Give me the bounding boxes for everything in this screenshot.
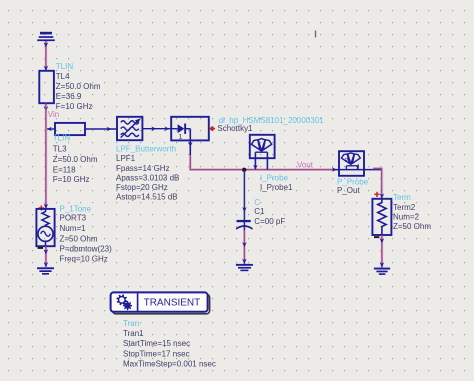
- diode Schottky1 box: [171, 117, 209, 141]
- wire junction to TL3: [47, 128, 55, 130]
- svg-text:TLIN: TLIN: [56, 62, 74, 71]
- wire halos: [46, 41, 382, 268]
- svg-text:Z=50 Ohm: Z=50 Ohm: [393, 222, 431, 231]
- diode pin2 stub below box: [189, 140, 191, 155]
- svg-text:Num=1: Num=1: [60, 224, 87, 233]
- svg-text:Term: Term: [393, 193, 411, 202]
- pin arrow PORT3 ground: [44, 262, 49, 267]
- pin arrow C1 ground: [242, 259, 247, 264]
- svg-text:Vout: Vout: [297, 160, 314, 169]
- pin arrow capacitor top: [242, 207, 247, 212]
- svg-text:P_1Tone: P_1Tone: [60, 204, 92, 213]
- resistor-style TLIN TL4 box: [39, 71, 54, 103]
- TL4 labels: [56, 62, 101, 111]
- power probe P_Out: [339, 151, 364, 176]
- pin arrow into TL4 top: [44, 66, 49, 71]
- plus mark PORT3: [39, 205, 44, 210]
- pin arrow PORT3 bottom: [44, 249, 49, 254]
- svg-text:Z=50.0 Ohm: Z=50.0 Ohm: [56, 82, 101, 91]
- pin arrow LPF pin2: [151, 126, 156, 131]
- pin arrow TL3 pin2: [107, 127, 112, 132]
- svg-text:Fpass=14 GHz: Fpass=14 GHz: [116, 164, 170, 173]
- capacitor C1: [236, 220, 252, 229]
- minus mark PORT3: [38, 247, 43, 249]
- ground (PORT3): [37, 267, 54, 274]
- svg-text:P_Out: P_Out: [337, 186, 360, 195]
- svg-text:TL3: TL3: [53, 145, 67, 154]
- filter LPF1 box: [117, 117, 142, 140]
- resistor zigzag Term2: [378, 199, 386, 235]
- PORT3 labels: [60, 204, 113, 263]
- current probe I_Probe1: [250, 135, 275, 170]
- pin arrow Term2 bottom: [380, 238, 385, 243]
- gear icon: [116, 294, 127, 305]
- pin arrow PORT3 top: [44, 204, 49, 209]
- svg-text:Vin: Vin: [48, 110, 59, 119]
- svg-text:F=10 GHz: F=10 GHz: [56, 102, 93, 111]
- TLIN TL3 box: [55, 123, 85, 135]
- pin arrow C1 bottom: [242, 242, 247, 247]
- svg-text:Schottky1: Schottky1: [217, 124, 253, 133]
- wire Term2 to ground: [381, 235, 383, 268]
- pin arrow TL4 bottom: [44, 106, 49, 111]
- svg-text:P_Probe: P_Probe: [337, 177, 369, 186]
- wire TL3 to LPF: [85, 128, 117, 130]
- stray tick mark top right: [315, 31, 316, 38]
- transient labels: [123, 319, 216, 368]
- svg-text:StopTime=17 nsec: StopTime=17 nsec: [123, 349, 190, 358]
- svg-text:Fstop=20 GHz: Fstop=20 GHz: [116, 183, 168, 192]
- resistor zigzag PORT3: [42, 209, 49, 226]
- svg-text:E=36.9: E=36.9: [56, 92, 82, 101]
- svg-text:PORT3: PORT3: [60, 213, 87, 222]
- ground (top, flipped): [37, 32, 55, 41]
- svg-text:Z=50 Ohm: Z=50 Ohm: [60, 234, 98, 243]
- wire capacitor branch: [243, 170, 245, 230]
- svg-text:Apass=3.0103 dB: Apass=3.0103 dB: [116, 173, 179, 182]
- svg-text:LPF1: LPF1: [116, 154, 136, 163]
- wire ground to TL4: [45, 41, 47, 71]
- svg-text:TLIN: TLIN: [53, 134, 71, 143]
- wire PORT3 to ground: [45, 246, 47, 267]
- ground (Term2): [374, 268, 390, 275]
- svg-text:TL4: TL4: [56, 72, 70, 81]
- svg-text:TRANSIENT: TRANSIENT: [144, 298, 201, 309]
- svg-text:Z=50.0 Ohm: Z=50.0 Ohm: [53, 155, 98, 164]
- sine source circle PORT3: [38, 226, 53, 241]
- wire TL4 to PORT3 (vertical spine): [45, 103, 47, 209]
- terminator Term2: [372, 199, 391, 235]
- svg-text:Tran: Tran: [123, 319, 139, 328]
- diode symbol: [171, 124, 190, 141]
- wire Vout net navy segment through P_Probe: [333, 169, 382, 171]
- svg-text:I_Probe: I_Probe: [260, 174, 289, 183]
- unconnected pin red diamond: [209, 126, 215, 131]
- svg-text:C=00 pF: C=00 pF: [254, 217, 285, 226]
- pin arrow diode pin2: [188, 142, 193, 147]
- svg-text:P: P: [345, 158, 349, 164]
- node junction capacitor tap: [242, 168, 246, 172]
- svg-text:Tran1: Tran1: [123, 329, 144, 338]
- svg-text:Num=2: Num=2: [393, 213, 420, 222]
- pin arrow diode pin1: [164, 126, 169, 131]
- plus mark Term2: [374, 192, 379, 197]
- pin arrow Term2 ground: [380, 262, 385, 267]
- pin arrow Term2 top: [380, 193, 385, 198]
- TL3 labels: [53, 134, 98, 185]
- filter wave glyphs: [121, 120, 140, 138]
- svg-text:Astop=14.515 dB: Astop=14.515 dB: [116, 193, 178, 202]
- divider line: [137, 293, 139, 311]
- svg-text:StartTime=15 nsec: StartTime=15 nsec: [123, 339, 190, 348]
- svg-text:F=10 GHz: F=10 GHz: [53, 175, 90, 184]
- svg-text:P=dbmtow(23): P=dbmtow(23): [60, 245, 113, 254]
- svg-text:Term2: Term2: [393, 203, 416, 212]
- ground (C1): [236, 264, 253, 271]
- wire diode down to Vout net: [190, 155, 333, 170]
- pin arrow P_Probe: [332, 167, 337, 172]
- LPF labels: [116, 145, 179, 202]
- Term2 labels: [393, 193, 431, 231]
- svg-text:Freq=10 GHz: Freq=10 GHz: [60, 254, 108, 263]
- source P_1Tone PORT3: [36, 209, 54, 246]
- svg-text:1: 1: [179, 134, 183, 141]
- wire LPF to diode: [142, 128, 171, 130]
- svg-text:I_Probe1: I_Probe1: [260, 183, 293, 192]
- svg-text:MaxTimeStep=0.001 nsec: MaxTimeStep=0.001 nsec: [123, 359, 216, 368]
- wire P_Probe corner down to Term2: [373, 169, 381, 200]
- pin arrow TL3 pin1 at node Vin: [47, 127, 52, 132]
- svg-text:C: C: [254, 198, 260, 207]
- pin arrow at ground pin: [44, 42, 49, 47]
- svg-text:LPF_Butterworth: LPF_Butterworth: [116, 145, 176, 154]
- svg-text:E=118: E=118: [53, 166, 76, 175]
- simulation controller TRANSIENT: [111, 292, 210, 313]
- svg-text:C1: C1: [254, 207, 265, 216]
- minus mark Term2: [374, 236, 379, 238]
